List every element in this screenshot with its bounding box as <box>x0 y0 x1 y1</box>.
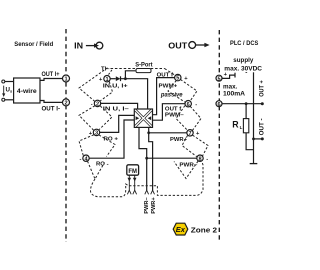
svg-text:5: 5 <box>217 76 220 82</box>
svg-text:S-Port: S-Port <box>135 61 153 68</box>
module terminal 5 <box>175 74 181 81</box>
junction node PWR- <box>145 157 148 160</box>
svg-text:8: 8 <box>198 156 201 162</box>
svg-text:PWM–: PWM– <box>165 112 185 118</box>
svg-text:OUT +: OUT + <box>260 80 266 97</box>
svg-text:OUT I-: OUT I- <box>42 106 61 112</box>
svg-text:PWR–: PWR– <box>144 197 150 214</box>
svg-text:FM: FM <box>128 169 137 175</box>
svg-text:6: 6 <box>187 102 190 108</box>
svg-text:Ex: Ex <box>176 225 186 234</box>
dashed link to terminal 5 <box>165 69 176 76</box>
wire PLC 5 to supply <box>222 75 235 78</box>
svg-text:-: - <box>206 156 208 162</box>
svg-text:Sensor / Field: Sensor / Field <box>14 41 53 48</box>
wire terminal 4 to terminal 8 <box>147 157 197 159</box>
svg-text:6: 6 <box>217 102 220 108</box>
svg-text:1: 1 <box>105 77 108 83</box>
field terminal 2 <box>63 99 70 107</box>
wire converter to terminal 6 <box>153 104 186 121</box>
module terminal 4 <box>83 155 89 162</box>
svg-text:OUT f: OUT f <box>157 72 173 78</box>
source terminal bottom <box>2 98 5 101</box>
svg-text:-: - <box>80 156 82 162</box>
svg-text:-: - <box>195 102 197 108</box>
wire 4-wire box to field terminal 2 <box>40 101 62 103</box>
OUT- contact dot <box>261 137 264 140</box>
field terminal 1 <box>63 75 70 83</box>
svg-text:4-wire: 4-wire <box>17 88 37 95</box>
zone boundary Sensor/Field | IN dashed line <box>65 29 67 242</box>
svg-text:R: R <box>232 120 239 130</box>
S-Port connector <box>136 69 151 73</box>
wire terminal 3 to converter <box>100 115 135 132</box>
svg-text:max. 30VDC: max. 30VDC <box>224 66 262 73</box>
wire source bottom to 4-wire box <box>5 99 14 101</box>
dashed link chain output left <box>168 81 197 158</box>
junction node input <box>124 77 127 80</box>
svg-text:Zone 2: Zone 2 <box>191 225 217 234</box>
module terminal 3 <box>93 129 99 136</box>
wire S-Port to input node <box>125 71 135 79</box>
supply contact bar <box>234 73 236 78</box>
svg-text:3: 3 <box>95 131 98 137</box>
wire converter to PWR- pin <box>139 127 147 190</box>
svg-text:-: - <box>91 102 93 108</box>
Ex marking <box>173 223 188 235</box>
dashed S-Port line right <box>151 68 165 70</box>
svg-text:OUT: OUT <box>168 41 188 51</box>
svg-text:2: 2 <box>96 102 99 108</box>
wire PLC 6 to OUT+ <box>222 103 262 105</box>
svg-text:+: + <box>184 76 188 82</box>
diode D1 <box>116 76 121 81</box>
zone boundary OUT | PLC/DCS dashed line <box>218 30 220 243</box>
source terminal top <box>2 80 5 83</box>
signal converter / isolator <box>134 109 152 127</box>
module terminal 6 <box>185 101 191 108</box>
IN symbol <box>74 41 103 51</box>
dashed S-Port line left <box>111 68 136 70</box>
svg-text:7: 7 <box>188 131 191 137</box>
wire node to terminal 7 <box>149 132 187 134</box>
svg-text:OUT -: OUT - <box>260 118 266 135</box>
module terminal 7 <box>187 130 193 137</box>
load resistor RL <box>243 104 253 150</box>
dashed link chain input right <box>99 82 115 157</box>
FM connector <box>127 165 139 175</box>
wire converter to terminal 5 <box>153 78 175 115</box>
wire source top to 4-wire box <box>5 81 14 83</box>
dashed link terminal 4 to plug <box>88 161 105 179</box>
wire converter to PWR+ pin <box>149 127 153 190</box>
OUT symbol <box>168 41 209 51</box>
wire 4-wire box to field terminal 1 <box>40 79 62 81</box>
supply minus rail <box>253 72 255 163</box>
label RL <box>232 120 242 130</box>
voltage arrow Us <box>2 86 13 97</box>
svg-text:PLC / DCS: PLC / DCS <box>230 40 258 47</box>
module terminal 2 <box>94 100 100 107</box>
svg-text:supply: supply <box>233 57 254 64</box>
svg-text:PWR+: PWR+ <box>151 197 157 214</box>
plug contact forks <box>127 190 154 194</box>
svg-text:100mA: 100mA <box>223 90 246 97</box>
svg-text:5: 5 <box>176 76 179 82</box>
dashed link TI- to terminal 1 <box>109 68 114 74</box>
junction node terminal 7 <box>147 131 150 134</box>
PLC terminal 5 <box>216 75 222 82</box>
PLC terminal 6 <box>216 101 222 108</box>
FM arrow left <box>128 175 132 190</box>
svg-text:1: 1 <box>64 77 67 83</box>
svg-text:TI–: TI– <box>101 66 110 72</box>
svg-text:-: - <box>245 69 247 76</box>
svg-text:IN U, I+: IN U, I+ <box>103 83 129 89</box>
wire terminal 2 to converter <box>101 103 138 109</box>
junction OUT- rail <box>252 138 255 141</box>
svg-text:2: 2 <box>64 101 67 107</box>
wire diode to converter <box>121 79 148 110</box>
dashed link chain output right <box>181 80 209 156</box>
rail end bar <box>250 163 258 165</box>
junction RL top <box>245 102 248 105</box>
svg-text:IN: IN <box>74 41 83 51</box>
wire terminal 1 to diode <box>110 78 116 80</box>
svg-text:L: L <box>240 125 243 130</box>
OUT+ contact dot <box>261 102 264 105</box>
4-wire transmitter box <box>14 78 40 103</box>
svg-text:PWM+: PWM+ <box>159 83 178 89</box>
dashed link terminal 8 to plug <box>174 161 198 178</box>
FM arrow right <box>133 175 137 190</box>
plug boundary dashed outline <box>90 162 203 197</box>
module terminal 1 <box>104 76 110 83</box>
module terminal 8 <box>197 155 203 162</box>
wire terminal 4 to converter <box>89 120 134 158</box>
dashed link chain input left <box>79 68 108 156</box>
svg-text:OUT I+: OUT I+ <box>42 72 60 78</box>
wire OUT- stub <box>254 138 263 140</box>
